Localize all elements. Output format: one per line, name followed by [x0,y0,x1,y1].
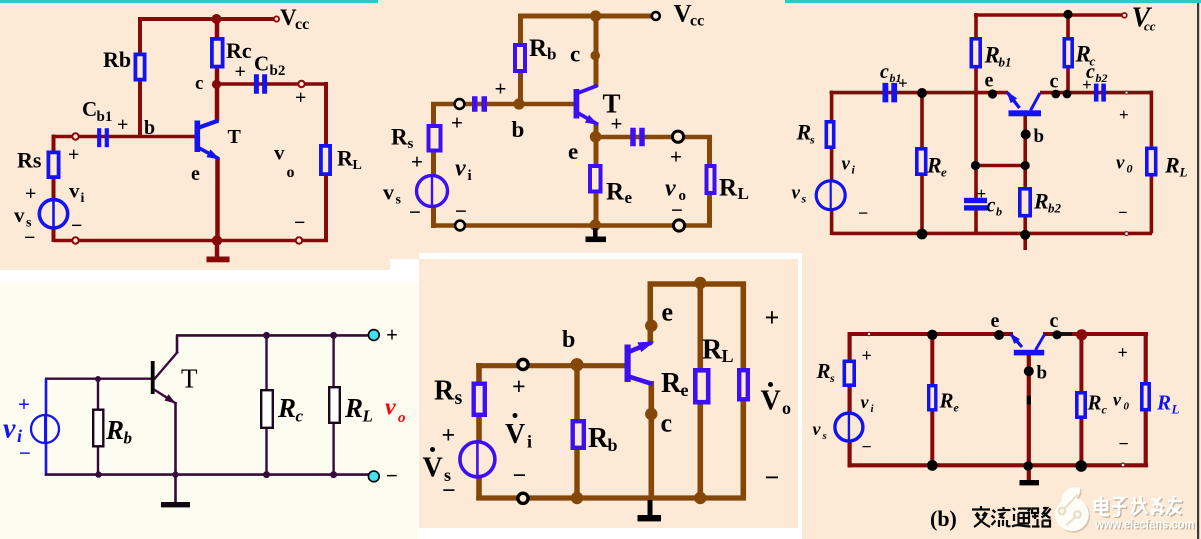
svg-text:+: + [611,112,623,136]
svg-text:L: L [1171,402,1180,417]
svg-text:c: c [570,42,580,67]
svg-text:−: − [513,463,527,489]
svg-text:v: v [1116,153,1125,174]
svg-text:R: R [702,335,723,366]
svg-text:R: R [1156,391,1171,415]
svg-text:b: b [996,205,1002,219]
svg-text:+: + [1119,105,1129,124]
svg-text:−: − [455,199,467,223]
svg-text:v: v [69,179,80,203]
svg-text:R: R [796,120,812,145]
svg-text:e: e [191,163,200,185]
svg-text:C: C [82,97,97,121]
svg-text:R: R [816,359,831,383]
svg-text:o: o [398,410,406,426]
svg-text:−: − [1118,203,1128,222]
svg-text:R: R [926,153,942,178]
svg-text:R: R [277,393,296,423]
svg-text:v: v [385,395,396,421]
svg-text:e: e [625,188,633,207]
svg-text:V: V [674,1,692,28]
svg-text:s: s [396,193,402,208]
svg-text:b: b [144,117,155,139]
svg-text:R: R [529,35,548,62]
svg-text:s: s [822,430,827,442]
svg-text:+: + [495,77,507,101]
svg-text:R: R [344,393,363,423]
svg-text:V: V [423,453,443,484]
svg-text:o: o [287,164,295,181]
svg-text:c: c [1102,403,1108,417]
svg-text:R: R [337,146,354,171]
svg-text:−: − [442,478,456,504]
svg-text:c: c [1050,71,1059,93]
svg-text:i: i [81,191,85,206]
svg-text:v: v [3,414,16,445]
svg-text:v: v [813,419,822,439]
svg-text:−: − [409,200,421,224]
svg-text:−: − [858,203,868,223]
svg-text:R: R [391,125,408,150]
svg-text:R: R [984,43,1000,68]
svg-text:+: + [411,150,423,174]
svg-text:v: v [861,392,870,412]
svg-text:e: e [568,139,578,164]
svg-text:c: c [1050,310,1059,332]
svg-text:e: e [985,70,994,92]
svg-text:b: b [1034,126,1045,147]
svg-text:e: e [991,310,1000,332]
svg-text:o: o [782,398,791,418]
svg-text:L: L [722,346,734,366]
svg-text:+: + [1082,75,1092,94]
svg-text:0: 0 [1127,162,1133,176]
svg-text:b: b [124,429,133,448]
svg-text:R: R [1087,391,1102,415]
svg-text:cc: cc [295,16,309,33]
svg-text:R: R [434,376,455,407]
svg-text:L: L [353,158,362,173]
svg-text:C: C [254,52,269,76]
svg-text:i: i [468,168,472,184]
svg-text:s: s [809,133,815,147]
svg-text:c: c [195,73,203,94]
svg-text:c: c [661,409,673,438]
svg-text:−: − [386,464,398,488]
svg-text:i: i [527,432,532,452]
svg-text:s: s [801,192,807,206]
svg-text:R: R [719,175,738,202]
svg-text:L: L [1179,165,1188,180]
svg-text:R: R [1164,153,1180,178]
svg-text:b2: b2 [270,63,286,79]
svg-text:v: v [14,203,25,227]
svg-text:v: v [842,154,851,175]
svg-text:+: + [25,183,36,205]
svg-text:s: s [829,371,835,385]
svg-text:V: V [505,419,525,450]
svg-text:b2: b2 [1048,201,1062,216]
svg-text:c: c [987,195,996,217]
svg-text:+: + [1118,343,1128,363]
svg-text:s: s [455,387,463,409]
svg-text:+: + [765,303,780,332]
svg-text:www.elecfans.com: www.elecfans.com [1094,516,1194,531]
svg-text:b1: b1 [97,109,113,125]
svg-text:b: b [512,117,525,142]
svg-text:Rc: Rc [226,38,252,63]
svg-text:R: R [939,389,954,413]
svg-text:+: + [898,74,908,93]
svg-text:+: + [442,423,456,449]
svg-text:b2: b2 [1096,71,1108,85]
svg-text:−: − [862,437,872,457]
svg-text:v: v [792,183,801,204]
svg-text:−: − [1119,434,1129,454]
svg-text:Rb: Rb [103,47,131,72]
svg-text:−: − [19,441,31,465]
svg-text:cc: cc [690,13,704,30]
svg-text:T: T [181,364,198,394]
svg-text:R: R [105,415,124,445]
svg-text:T: T [228,126,242,148]
svg-text:b: b [562,327,575,353]
svg-text:c: c [880,61,889,83]
svg-text:v: v [274,141,285,165]
svg-text:+: + [295,87,306,109]
svg-text:+: + [117,114,128,136]
svg-text:b: b [608,435,618,455]
svg-text:L: L [362,407,373,426]
svg-text:e: e [681,380,689,400]
svg-text:v: v [455,156,466,182]
svg-text:−: − [765,463,780,492]
svg-text:+: + [18,392,30,416]
svg-text:+: + [862,346,872,366]
svg-text:cc: cc [1144,19,1156,34]
svg-text:V: V [761,386,781,417]
svg-text:+: + [386,323,398,347]
svg-text:+: + [68,144,79,166]
svg-text:−: − [671,198,683,222]
svg-text:0: 0 [1124,401,1130,413]
svg-text:e: e [954,401,960,415]
svg-text:L: L [738,184,749,203]
svg-text:e: e [662,298,674,327]
svg-text:e: e [941,165,947,180]
svg-text:b: b [547,45,556,64]
svg-text:b1: b1 [999,55,1012,70]
svg-text:s: s [26,216,32,231]
svg-text:R: R [1033,189,1049,214]
svg-text:v: v [383,180,394,205]
svg-text:+: + [670,145,682,169]
svg-text:−: − [71,215,82,237]
svg-text:R: R [661,368,682,399]
svg-text:R: R [606,179,625,206]
svg-text:−: − [294,212,305,234]
svg-text:c: c [296,407,304,426]
svg-text:+: + [235,61,246,83]
svg-text:+: + [977,184,987,203]
svg-text:b: b [1037,363,1048,384]
svg-text:Rs: Rs [17,148,42,173]
svg-text:(b): (b) [930,506,957,531]
svg-text:R: R [588,423,609,454]
svg-text:+: + [512,375,526,401]
svg-text:v: v [1113,390,1122,410]
svg-text:+: + [451,111,463,135]
